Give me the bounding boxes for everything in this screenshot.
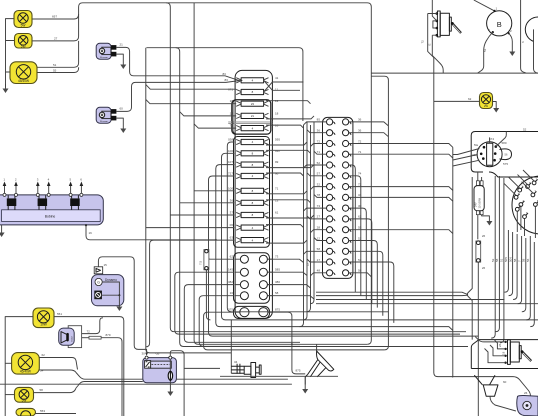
- motor M1 wiper motor: [96, 43, 116, 59]
- svg-text:875: 875: [275, 308, 280, 312]
- svg-text:697: 697: [52, 15, 57, 19]
- fuse box outer: [235, 70, 272, 318]
- wire X1 right pin 8: [349, 197, 453, 201]
- svg-text:879: 879: [106, 333, 111, 337]
- ground bobine left: [1, 225, 3, 228]
- svg-text:875: 875: [296, 368, 301, 372]
- wire lamp E8 ground: [493, 102, 497, 104]
- svg-text:36: 36: [358, 129, 362, 133]
- wire X1 right pin 9: [349, 208, 367, 299]
- svg-text:100: 100: [228, 149, 233, 153]
- ignition coil box Bobine: [0, 195, 103, 225]
- svg-text:73: 73: [275, 255, 279, 259]
- svg-text:B: B: [497, 20, 502, 29]
- bus bundle right 4: [316, 303, 538, 305]
- svg-text:21: 21: [120, 43, 124, 47]
- wire connector row4 left: [199, 296, 300, 347]
- wire fuse F11 right exit: [266, 200, 311, 203]
- wire X1 right pin 14: [349, 262, 394, 323]
- wire fuse F14 left: [146, 240, 234, 347]
- svg-text:71: 71: [275, 186, 279, 190]
- svg-text:48: 48: [317, 269, 321, 273]
- spark plug arrow 1: [3, 178, 7, 194]
- svg-text:Wi-wam: Wi-wam: [100, 121, 108, 123]
- svg-text:16: 16: [230, 291, 234, 295]
- svg-text:71: 71: [317, 150, 321, 154]
- wire conn row4 right: [267, 296, 314, 299]
- svg-text:58: 58: [522, 258, 526, 262]
- fuse F9 (4A): [236, 173, 268, 178]
- connector pin row 2: [235, 268, 272, 276]
- svg-text:58: 58: [495, 258, 499, 262]
- switch S2: [504, 340, 531, 365]
- wire box edge left vertical 472: [467, 177, 472, 340]
- wire top bus from lamps to right: [79, 3, 372, 345]
- svg-text:585: 585: [275, 268, 280, 272]
- wire net fuse to bus 5: [194, 3, 367, 345]
- wire motor M1 ground: [116, 54, 123, 60]
- svg-text:45/40W: 45/40W: [20, 370, 31, 374]
- connector X1 pin row 1: [327, 119, 351, 125]
- lamp E1 (tail lamp): [14, 11, 32, 28]
- wire vertical 433 long: [434, 73, 453, 377]
- wire conn row5 right to horn: [268, 312, 292, 344]
- bus bundle right 3: [316, 299, 504, 301]
- svg-text:2W: 2W: [484, 104, 488, 108]
- connector X2 pin 9: [526, 181, 531, 188]
- wire X1 right pin 2: [349, 133, 389, 137]
- svg-text:62: 62: [230, 255, 234, 259]
- wire connector row5 left: [204, 312, 385, 350]
- lamp E7 partial bottom: [16, 408, 36, 416]
- ground dynamo: [118, 295, 120, 302]
- coil T1: [7, 195, 16, 210]
- wire lamp E7: [36, 413, 77, 415]
- svg-text:56: 56: [526, 258, 530, 262]
- wire vertical right top 2: [534, 29, 538, 73]
- connector X2 pin 1: [518, 185, 523, 192]
- svg-text:72: 72: [87, 329, 91, 333]
- switch S1 top right: [436, 11, 462, 37]
- connector X1 pin row 2: [327, 130, 351, 136]
- svg-text:99: 99: [275, 160, 279, 164]
- light switch S3: [477, 142, 511, 167]
- wire X1 right pin 15: [349, 273, 372, 277]
- wire lamp E4 to vertical: [54, 317, 124, 416]
- connector X1 pin row 14: [327, 259, 351, 265]
- svg-text:51: 51: [500, 258, 504, 262]
- svg-text:10W: 10W: [40, 323, 47, 327]
- wire X2 bundle 5: [509, 232, 513, 296]
- wire X1 left pin 1: [304, 122, 327, 125]
- svg-text:63: 63: [230, 236, 234, 240]
- plug connector M3: [483, 385, 498, 396]
- connector X1 pin row 5: [327, 162, 351, 168]
- wire X1 left pin 12: [314, 238, 327, 241]
- svg-text:72: 72: [358, 139, 362, 143]
- fuse F7 (8A): [236, 151, 268, 156]
- wire X2 bundle 10: [530, 242, 534, 327]
- fuse sub-box F3-F5: [233, 100, 271, 134]
- svg-text:Bobine: Bobine: [45, 215, 56, 219]
- wire net fuse to bus 1: [227, 142, 388, 312]
- wire X1 left pin 8: [314, 194, 327, 197]
- wire lamp E6: [34, 388, 77, 393]
- connector X2 big circle: [512, 176, 538, 234]
- wire X1 right pin 6: [349, 176, 361, 296]
- wire lamp E1 to bus: [32, 14, 79, 19]
- wire lamp E5 left: [5, 362, 11, 364]
- wire conn row2 right: [267, 272, 307, 275]
- fuse F11 (8A): [236, 200, 268, 205]
- svg-text:BUZZ: BUZZ: [71, 336, 73, 342]
- fuse F2 (8A): [236, 89, 268, 94]
- wire X1 left pin 11: [311, 230, 327, 233]
- connector X1 pin row 9: [327, 205, 351, 211]
- connector X1 block: [323, 117, 353, 278]
- wire fuse F4 left feed: [180, 112, 237, 116]
- svg-text:-58: -58: [155, 351, 160, 355]
- wire 24V ground: [482, 215, 490, 217]
- wire relay right terminal: [170, 351, 184, 416]
- vertical feeders left of X1: [300, 122, 315, 327]
- wire fuse F3 left feed: [146, 100, 236, 104]
- svg-text:5W: 5W: [22, 399, 27, 403]
- wire X1 right pin 13: [349, 251, 383, 315]
- chevron merge E5: [76, 373, 288, 380]
- wire net fuse to bus 7: [166, 3, 466, 332]
- svg-text:57: 57: [317, 172, 321, 176]
- fuse F10 (8A): [236, 188, 268, 193]
- connector X1 pin row 3: [327, 140, 351, 146]
- wires switch S2 pins: [475, 337, 505, 363]
- connector X1 pin row 4: [327, 151, 351, 157]
- wire X1 right pin 12: [349, 241, 378, 308]
- svg-text:36: 36: [317, 129, 321, 133]
- wire vertical right top 1: [521, 0, 526, 73]
- svg-text:16: 16: [275, 124, 279, 128]
- spark plug arrow 6: [80, 178, 84, 194]
- svg-text:83: 83: [225, 78, 229, 82]
- wire switch S1 down jog: [428, 14, 434, 74]
- wires into light switch from lower left: [453, 149, 480, 167]
- wire fuse F14 right exit: [266, 240, 307, 243]
- connector X2 pin 2: [532, 177, 537, 184]
- fuse F5 (4A): [236, 126, 268, 131]
- svg-text:62: 62: [468, 97, 472, 101]
- connector X1 pin row 11: [327, 227, 351, 233]
- wire X1 right pin 10: [349, 219, 372, 304]
- flasher relay box: [143, 356, 177, 383]
- fuse F8 (8A): [236, 162, 268, 167]
- wires switch S1 pins: [428, 0, 437, 35]
- connector X2 pin 3: [514, 192, 519, 199]
- svg-text:145: 145: [228, 268, 233, 272]
- wire net fuse to bus 4: [209, 176, 479, 336]
- wire lower bus to funnel: [452, 377, 530, 397]
- svg-text:62: 62: [42, 353, 46, 357]
- gray band across fuse box: [228, 122, 272, 124]
- connector block small: [234, 306, 270, 318]
- wire bus y76 branch: [371, 76, 388, 350]
- svg-text:553: 553: [40, 409, 45, 413]
- svg-text:18: 18: [275, 111, 279, 115]
- alternator partial right edge: [525, 17, 538, 41]
- wire X1 right pin 3: [349, 144, 453, 148]
- svg-text:30: 30: [142, 351, 146, 355]
- connector X2 pin 4: [519, 199, 524, 206]
- wire connector row2 left: [175, 272, 460, 334]
- connector pin row 4: [235, 292, 272, 300]
- bus chevron merge left lamps: [76, 382, 143, 389]
- wire X1 left pin 6: [307, 173, 327, 176]
- svg-text:26: 26: [482, 266, 486, 270]
- wire B right pin ground: [509, 33, 513, 47]
- svg-text:18: 18: [502, 351, 506, 355]
- connector X2 pin 7: [531, 189, 536, 196]
- svg-text:551: 551: [57, 312, 62, 316]
- wire B left pin down: [478, 32, 493, 73]
- svg-text:37: 37: [230, 211, 234, 215]
- svg-text:100: 100: [228, 186, 233, 190]
- wire lamp E8 feed: [434, 100, 480, 102]
- lamp E3 (headlamp 45/40W): [10, 62, 37, 84]
- wire X1 right pin 5: [349, 165, 356, 292]
- svg-text:G: G: [97, 280, 100, 284]
- svg-text:51: 51: [53, 63, 57, 67]
- lamp E5 headlamp 45/40W: [12, 353, 40, 375]
- dynamo box: [92, 275, 124, 306]
- svg-text:16: 16: [89, 231, 93, 235]
- svg-text:595: 595: [275, 138, 280, 142]
- fuse F14 (4A): [236, 238, 268, 243]
- wire fuse F6 right exit: [266, 142, 307, 145]
- fuse F4 (21A): [236, 113, 268, 118]
- fuse sub-box F3-F5: [232, 100, 271, 135]
- wire lamp E2 to bus: [32, 19, 79, 41]
- svg-text:12: 12: [275, 99, 279, 103]
- wire X2 bundle 2: [495, 176, 499, 332]
- svg-text:26: 26: [498, 343, 502, 347]
- spark plug arrow 3: [36, 178, 40, 194]
- wires X2 pins to bundle: [504, 170, 534, 195]
- wire fuse F7 right exit: [266, 150, 311, 153]
- wire left lamp bus: [6, 19, 15, 88]
- wire conn row1 right: [267, 259, 303, 262]
- svg-text:11: 11: [275, 88, 278, 92]
- svg-text:71: 71: [358, 150, 362, 154]
- wire fuse F5 left feed: [194, 124, 236, 128]
- wire 24V terminals top: [478, 172, 482, 181]
- svg-text:45/40W: 45/40W: [18, 79, 29, 83]
- svg-text:107: 107: [228, 160, 233, 164]
- wire X2 bundle 8: [522, 238, 526, 312]
- connector X2 pin 6: [523, 211, 528, 218]
- svg-text:575: 575: [503, 162, 508, 166]
- svg-text:58: 58: [275, 291, 279, 295]
- wire spark plug bottom line: [220, 375, 338, 377]
- svg-text:506: 506: [508, 257, 512, 262]
- wire lamp E3 upper to bus: [37, 41, 79, 67]
- svg-text:380: 380: [275, 280, 280, 284]
- wire X1 right pin 1: [349, 122, 389, 126]
- svg-text:56a: 56a: [474, 144, 479, 147]
- wire lamp E5 upper: [39, 358, 77, 370]
- ground left lamp bus: [3, 84, 9, 93]
- connector X1 pin row 15: [327, 270, 351, 276]
- svg-text:26: 26: [524, 391, 528, 395]
- svg-text:52: 52: [317, 161, 321, 165]
- wire fuse F3 right exit: [266, 101, 311, 104]
- svg-text:17: 17: [317, 258, 321, 262]
- svg-text:78: 78: [317, 193, 321, 197]
- wire fuse F1 right exit: [264, 80, 304, 92]
- wire X2 bundle 7: [518, 236, 522, 304]
- svg-text:83: 83: [223, 72, 227, 76]
- wire motor M1 feed to fuse F1: [116, 47, 242, 80]
- fuse sub-box F6-F14: [234, 137, 270, 248]
- wire fuse F4 right exit: [266, 116, 314, 119]
- lamp E2 (tail lamp): [15, 34, 33, 49]
- wire X2 bundle 3: [500, 178, 504, 343]
- coil T2: [38, 195, 48, 210]
- 24V instrument lamp: [474, 181, 485, 215]
- connector above dynamo: [94, 267, 103, 274]
- wire X1 right pin 7: [349, 187, 453, 191]
- wire X2 bundle 9: [526, 240, 530, 320]
- svg-text:27: 27: [317, 215, 321, 219]
- wire fuse F10 right exit: [266, 191, 307, 194]
- svg-text:7,5: 7,5: [199, 260, 203, 265]
- svg-text:24V: 24V: [474, 202, 478, 207]
- ground motor M2: [120, 124, 126, 133]
- wire X2 bundle 1: [491, 176, 495, 338]
- lamp E8 indicator: [480, 93, 493, 109]
- wire X1 left pin 10: [307, 216, 327, 219]
- wire connector row3 left: [184, 285, 300, 343]
- coil terminals and spark arrows: [3, 193, 83, 196]
- wire X1 left pin 9: [304, 208, 327, 211]
- svg-text:15-100W: 15-100W: [478, 197, 482, 208]
- svg-text:51: 51: [483, 48, 487, 52]
- wire resistor to vertical: [101, 338, 122, 416]
- wire bus y73: [371, 72, 538, 74]
- wire fuse F8 right exit: [266, 165, 314, 168]
- horn: [291, 343, 334, 384]
- wire X2 bundle 6: [513, 234, 517, 300]
- wire X1 left pin 14: [307, 259, 327, 262]
- ground motor M1: [120, 60, 126, 69]
- svg-text:98: 98: [275, 172, 279, 176]
- svg-text:58: 58: [513, 258, 517, 262]
- connector pin row 1: [235, 255, 272, 263]
- wire net fuse to bus 2: [222, 153, 538, 320]
- wire fuse F16 down: [477, 262, 479, 416]
- connector X2 pin 5: [515, 204, 520, 211]
- wire fuse F13 right exit: [266, 225, 304, 228]
- fuse F3 (23A): [236, 101, 268, 106]
- wire X2 bundle 4: [504, 230, 508, 292]
- wire light switch top terminal: [490, 132, 507, 147]
- svg-text:E: E: [427, 43, 431, 45]
- bottom right switch box: [471, 340, 538, 369]
- fuse F6 (4A): [236, 139, 268, 144]
- fuse F1 (4A): [236, 78, 268, 83]
- svg-text:60: 60: [503, 380, 507, 384]
- wire X1 right pin 11: [349, 230, 453, 234]
- wire down to fuse F16: [477, 215, 479, 240]
- svg-text:55: 55: [53, 68, 57, 72]
- wire motor M2 ground: [116, 118, 123, 124]
- svg-text:038: 038: [228, 138, 233, 142]
- svg-text:73: 73: [317, 204, 321, 208]
- svg-text:717: 717: [228, 172, 233, 176]
- svg-text:26: 26: [482, 234, 486, 238]
- fuse F16: [476, 234, 486, 270]
- bus bundle right 2: [316, 294, 468, 296]
- wire X1 left pin 7: [311, 187, 327, 190]
- wire relay ground: [169, 381, 171, 387]
- connector X1 pin row 10: [327, 216, 351, 222]
- wire fuse F12 right exit: [266, 215, 314, 218]
- wire X1 right pin 4: [349, 154, 453, 158]
- wire net fuse to bus 8: [146, 48, 232, 353]
- svg-text:5W: 5W: [21, 44, 26, 48]
- svg-text:580: 580: [502, 141, 507, 145]
- svg-text:13: 13: [275, 198, 279, 202]
- spark plug arrow 4: [47, 178, 51, 194]
- bus bundle right 1: [316, 292, 468, 295]
- wire fuse F5 right exit: [266, 125, 304, 128]
- svg-text:06: 06: [230, 223, 234, 227]
- motor M2 washer pump: [96, 107, 116, 123]
- resistor buzzer: [82, 337, 89, 339]
- spark plug sensor: [231, 320, 261, 378]
- wire fuse F9 right exit: [266, 173, 304, 176]
- wire X1 left pin 2: [307, 130, 327, 133]
- coil T3: [70, 195, 80, 210]
- svg-text:382: 382: [228, 280, 233, 284]
- wire bus47 down: [146, 48, 303, 121]
- svg-text:58: 58: [317, 247, 321, 251]
- svg-text:52: 52: [523, 127, 527, 131]
- ground horn: [302, 385, 308, 394]
- wire X1 left pin 13: [304, 251, 327, 254]
- svg-text:72: 72: [317, 139, 321, 143]
- motor M3 bottom right: [517, 395, 538, 416]
- fuse F12 (8A): [236, 212, 268, 217]
- buzzer: [59, 326, 82, 348]
- svg-text:72: 72: [420, 40, 424, 44]
- generator B: [474, 0, 512, 36]
- gray band across fuse box: [228, 122, 272, 124]
- fuse F15 inline: [199, 250, 235, 320]
- svg-text:54: 54: [40, 369, 44, 373]
- vertical collector x452.8: [452, 147, 454, 376]
- svg-text:60: 60: [120, 107, 124, 111]
- light switch enclosure: [471, 132, 538, 178]
- wire X1 left pin 3: [311, 144, 327, 147]
- connector X1 pin row 12: [327, 237, 351, 243]
- wire motor M2 feed to fuse F1: [116, 81, 238, 112]
- spark plug arrow 5: [69, 178, 73, 194]
- svg-text:85: 85: [317, 118, 321, 122]
- connector X1 pin row 6: [327, 173, 351, 179]
- svg-text:36: 36: [230, 198, 234, 202]
- wire horn feed: [292, 344, 305, 374]
- svg-text:12: 12: [317, 236, 321, 240]
- svg-text:74: 74: [358, 172, 362, 176]
